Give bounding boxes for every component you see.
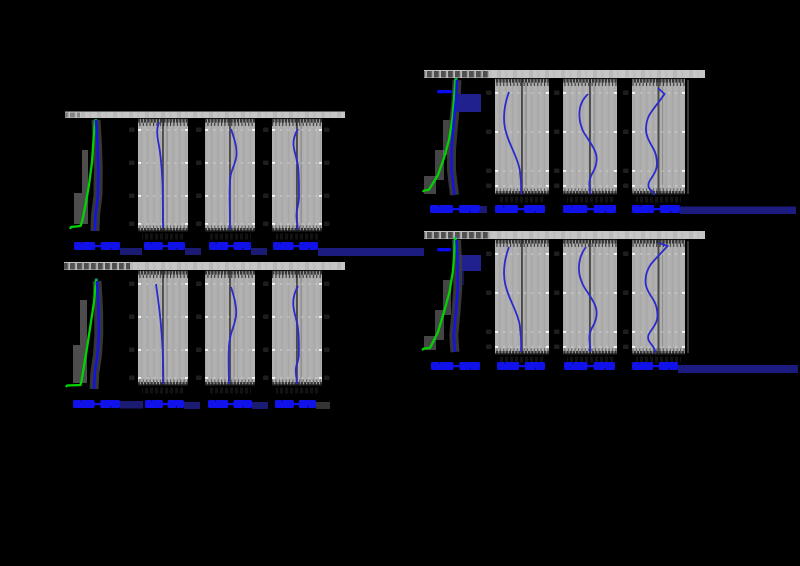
TL profile grey envelope xyxy=(74,150,88,224)
TL dewpoint-difference x tick label row xyxy=(209,234,251,240)
BL temperature-difference panel background xyxy=(138,270,188,386)
TL label 4 xyxy=(273,242,318,250)
TR temperature-difference x tick label row xyxy=(499,197,545,203)
BL temperature-difference x tick label row xyxy=(142,388,184,394)
TR temperature-difference tick labels xyxy=(486,91,492,189)
BR temperature-difference panel background xyxy=(495,239,549,355)
BR temperature-difference x tick label row xyxy=(499,357,545,363)
BR wind-difference panel background xyxy=(632,239,685,355)
TL label 2 tail xyxy=(185,248,201,255)
bottom-left title bar xyxy=(64,262,345,270)
BR label 1 xyxy=(431,362,480,370)
TL wind-difference axis tick rows xyxy=(272,118,322,232)
TR label 1 xyxy=(430,205,480,213)
BR legend text block xyxy=(456,255,481,285)
TR wind-difference pressure gridlines xyxy=(632,92,685,187)
BL temperature-difference pressure gridlines xyxy=(138,283,188,379)
TR temperature-difference panel background xyxy=(495,78,549,195)
BL wind-difference zero line xyxy=(296,270,302,386)
bottom-right title bar xyxy=(424,231,705,239)
TR temperature-difference zero line xyxy=(521,78,527,195)
TR dewpoint-difference panel background xyxy=(563,78,617,195)
TL label 4 tail xyxy=(318,248,342,256)
TR wind-difference panel background xyxy=(632,78,685,195)
TR wind-diff curve xyxy=(646,88,665,195)
BR wind-difference zero line xyxy=(658,239,664,355)
BR temperature-difference tick labels xyxy=(486,252,492,350)
TL temperature-difference tick labels xyxy=(129,128,135,227)
BL dewpoint-difference tick labels xyxy=(196,282,202,381)
TL wind-difference x tick label row xyxy=(276,234,318,240)
BL profile grey envelope xyxy=(73,300,87,383)
TL temperature-difference axis tick rows xyxy=(138,118,188,232)
BR temp-diff curve xyxy=(504,247,521,352)
BL right axis tick labels xyxy=(324,282,330,381)
TL label 1 xyxy=(74,242,120,250)
TR profile cyan tip xyxy=(455,78,458,83)
TL label 3 tail xyxy=(251,248,267,255)
BR dewpoint-difference zero line xyxy=(589,239,595,355)
TR legend text block xyxy=(456,94,481,112)
BR label 4 xyxy=(632,362,678,370)
TR temp-diff curve xyxy=(504,92,521,194)
BR wind-diff curve xyxy=(646,243,668,353)
BL blue profile glow xyxy=(94,281,99,389)
BL wind-diff curve xyxy=(293,286,299,384)
BL temperature-difference zero line xyxy=(162,270,168,386)
top-left title bar xyxy=(65,112,345,119)
TR label 4 xyxy=(632,205,680,213)
TR x-axis label bar xyxy=(680,207,796,215)
BR temperature-difference pressure gridlines xyxy=(495,253,549,348)
TR profile grey envelope xyxy=(424,120,451,194)
BL temperature-difference tick labels xyxy=(129,282,135,381)
BR temperature-difference zero line xyxy=(521,239,527,355)
BL dewpoint-difference panel background xyxy=(205,270,255,386)
TR wind-difference x tick label row xyxy=(636,197,681,203)
TL dewpoint-difference zero line xyxy=(229,118,235,232)
BR dewpoint-difference tick labels xyxy=(554,252,560,350)
BL label 2 xyxy=(145,400,184,408)
TR wind-difference zero line xyxy=(658,78,664,195)
BR dewpoint-difference pressure gridlines xyxy=(563,253,617,348)
TR label 3 xyxy=(563,205,616,213)
TL dewpoint-difference pressure gridlines xyxy=(205,129,255,225)
TR dewpoint-difference zero line xyxy=(589,78,595,195)
TR dewpoint-difference tick labels xyxy=(554,91,560,189)
BL wind-difference pressure gridlines xyxy=(272,283,322,379)
TR label 2 xyxy=(495,205,545,213)
BR label 2 xyxy=(497,362,545,370)
BL profile cyan tip xyxy=(95,279,98,284)
BR profile cyan tip xyxy=(454,237,457,242)
TR dewpoint-difference x tick label row xyxy=(567,197,613,203)
TL blue dewpoint profile xyxy=(95,120,98,231)
TR blue profile glow xyxy=(452,80,458,195)
BR label 3 xyxy=(564,362,615,370)
BR wind-difference x tick label row xyxy=(636,357,681,363)
BR dewpoint-difference axis tick rows xyxy=(563,239,617,355)
BR right frame column xyxy=(687,241,689,353)
BR x-axis label bar xyxy=(678,365,798,373)
BR legend line sample xyxy=(437,248,451,251)
TR blue dewpoint profile xyxy=(452,80,458,195)
TL profile cyan tip xyxy=(94,119,97,124)
TR legend line sample xyxy=(437,90,452,93)
TL label 1 tail xyxy=(120,248,142,255)
BR wind-difference tick labels xyxy=(623,252,629,350)
BR legend left text bar xyxy=(340,248,424,256)
TL dewpoint-difference tick labels xyxy=(196,128,202,227)
TL temperature-difference zero line xyxy=(162,118,168,232)
BL green temperature profile xyxy=(66,280,96,387)
BL dewpt-diff curve xyxy=(229,287,237,384)
BL label 1 xyxy=(73,400,120,408)
BR green temperature profile xyxy=(422,238,455,350)
TL temp-diff curve xyxy=(157,122,163,228)
TL dewpoint-difference panel background xyxy=(205,118,255,232)
TR wind-difference axis tick rows xyxy=(632,78,685,195)
BL label 1 tail xyxy=(120,401,143,409)
TR temperature-difference pressure gridlines xyxy=(495,92,549,187)
TR green temperature profile xyxy=(423,79,456,192)
BL dewpoint-difference pressure gridlines xyxy=(205,283,255,379)
BR profile grey envelope xyxy=(424,280,451,350)
BL label 2 tail xyxy=(184,402,200,409)
TL label 2 xyxy=(144,242,185,250)
BL label 4 xyxy=(275,400,316,408)
BL label 4 tail xyxy=(316,402,330,409)
TL wind-difference pressure gridlines xyxy=(272,129,322,225)
BR wind-difference axis tick rows xyxy=(632,239,685,355)
BL dewpoint-difference zero line xyxy=(229,270,235,386)
TL right axis tick labels xyxy=(324,128,330,227)
BL temperature-difference axis tick rows xyxy=(138,270,188,386)
BL dewpoint-difference x tick label row xyxy=(209,388,251,394)
TR wind-difference tick labels xyxy=(623,91,629,189)
TL dewpt-diff curve xyxy=(230,129,237,230)
BR wind-difference pressure gridlines xyxy=(632,253,685,348)
TR right frame column xyxy=(687,80,689,194)
TL temperature-difference pressure gridlines xyxy=(138,129,188,225)
BL label 3 tail xyxy=(252,402,268,409)
BL wind-difference x tick label row xyxy=(276,388,318,394)
BL blue dewpoint profile xyxy=(94,281,99,389)
BL dewpoint-difference axis tick rows xyxy=(205,270,255,386)
TL temperature-difference panel background xyxy=(138,118,188,232)
BL label 3 xyxy=(208,400,252,408)
TL temperature-difference x tick label row xyxy=(142,234,184,240)
BR blue dewpoint profile xyxy=(454,240,458,352)
TR label 1 tail xyxy=(480,206,487,213)
BL wind-difference axis tick rows xyxy=(272,270,322,386)
TR dewpt-diff curve xyxy=(579,94,596,194)
BR dewpt-diff curve xyxy=(579,247,597,352)
BL temp-diff curve xyxy=(156,284,163,384)
TL label 3 xyxy=(209,242,251,250)
BR temperature-difference axis tick rows xyxy=(495,239,549,355)
TL green temperature profile xyxy=(70,120,95,229)
top-right title bar xyxy=(424,70,705,78)
BL wind-difference tick labels xyxy=(263,282,269,381)
TL blue profile glow xyxy=(95,120,98,231)
BL wind-difference panel background xyxy=(272,270,322,386)
TL wind-difference zero line xyxy=(296,118,302,232)
BR dewpoint-difference x tick label row xyxy=(567,357,613,363)
TR dewpoint-difference axis tick rows xyxy=(563,78,617,195)
BR dewpoint-difference panel background xyxy=(563,239,617,355)
BR blue profile glow xyxy=(454,240,458,352)
TL dewpoint-difference axis tick rows xyxy=(205,118,255,232)
TL wind-difference tick labels xyxy=(263,128,269,227)
TL wind-diff curve xyxy=(293,129,299,230)
TR temperature-difference axis tick rows xyxy=(495,78,549,195)
TL wind-difference panel background xyxy=(272,118,322,232)
TR dewpoint-difference pressure gridlines xyxy=(563,92,617,187)
